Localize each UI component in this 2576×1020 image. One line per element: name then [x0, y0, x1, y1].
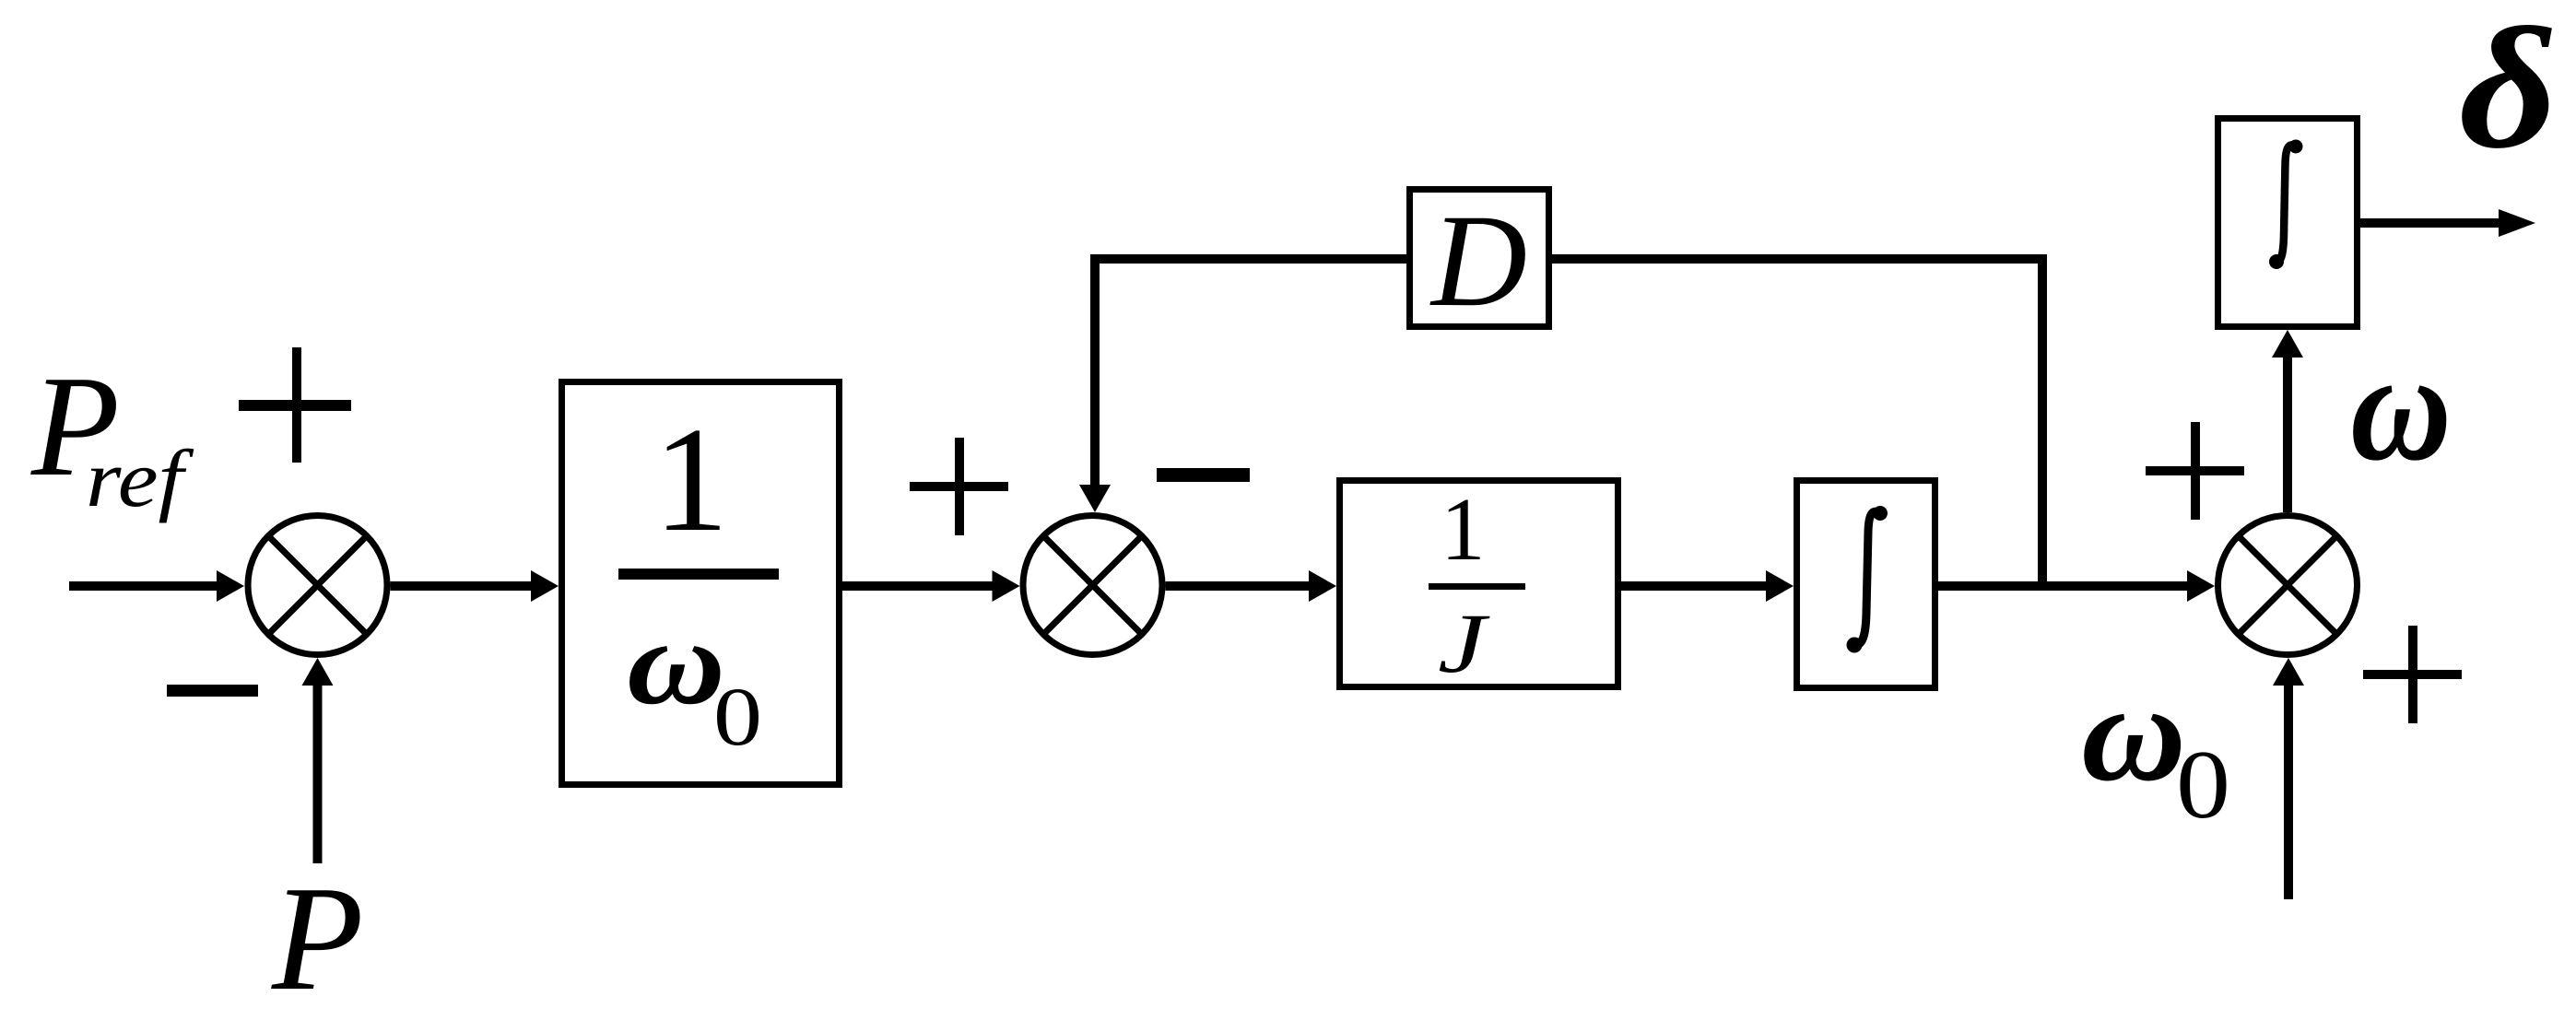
wire BJ to integrator I1 [1621, 570, 1794, 602]
svg-text:P: P [271, 856, 364, 1015]
node w0 label [2081, 655, 2230, 838]
block D [1410, 188, 1549, 334]
wire input Pref arrow [69, 570, 244, 602]
minus sign at summing junction S1 [167, 685, 258, 697]
block B1 gain 1/w0 [562, 382, 840, 785]
svg-text:1: 1 [1441, 480, 1486, 579]
wire D output to branch [1552, 254, 2047, 264]
wire B1 to S2 [842, 570, 1020, 602]
node Pref input label [30, 346, 194, 524]
plus sign at summing junction S3 top-left [2146, 422, 2244, 520]
svg-text:ref: ref [86, 435, 194, 524]
wire w0 input vertical arrow to S3 [2273, 658, 2304, 899]
block BJ gain 1/J [1340, 480, 1618, 690]
svg-text:1: 1 [653, 397, 729, 563]
plus sign at summing junction S1 [239, 347, 351, 463]
wire P input vertical arrow [302, 658, 334, 863]
block I1 integrator [1797, 481, 1935, 688]
wire S1 to block B1 [391, 570, 559, 602]
wire branch vertical [2038, 254, 2047, 591]
wire I1 to S3 with branch junction [1938, 570, 2215, 602]
summing junction S1 [248, 516, 387, 655]
svg-text:D: D [1429, 188, 1527, 334]
svg-text:ω: ω [627, 594, 725, 730]
wire S2 to block BJ [1166, 570, 1337, 602]
svg-text:0: 0 [2176, 731, 2230, 838]
wire I2 output delta arrow [2360, 209, 2535, 237]
svg-text:δ: δ [2459, 0, 2558, 184]
svg-text:ω: ω [2081, 655, 2186, 810]
summing junction S2 [1023, 516, 1162, 655]
minus sign at summing junction S2 [1157, 468, 1250, 482]
svg-text:ω: ω [2350, 320, 2452, 493]
svg-text:0: 0 [713, 672, 762, 763]
wire S3 to integrator I2 (up arrow, omega) [2272, 330, 2303, 512]
svg-text:J: J [1438, 596, 1490, 690]
block I2 integrator [2218, 119, 2358, 327]
plus sign at summing junction S2 [910, 438, 1008, 535]
plus sign at summing junction S3 bottom-right [2363, 626, 2462, 723]
summing junction S3 [2218, 516, 2358, 655]
wire feedback D to S2 (down arrow) [1079, 254, 1406, 512]
